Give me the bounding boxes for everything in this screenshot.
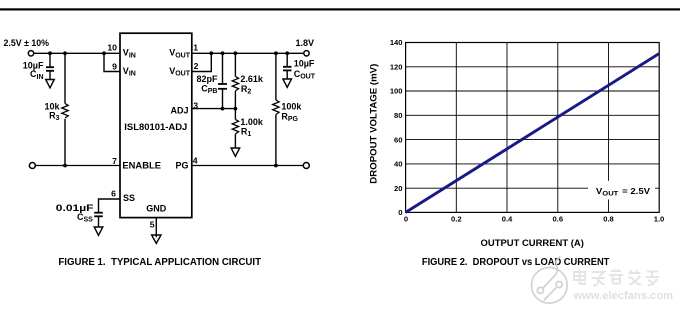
node junction R2 top	[234, 51, 238, 55]
watermark logo circle	[531, 256, 567, 303]
enable terminal	[29, 163, 35, 169]
watermark CJK text	[574, 270, 659, 287]
svg-text:CPB: CPB	[201, 83, 217, 95]
chart frame	[406, 43, 660, 213]
chart x labels	[404, 215, 664, 224]
wire input rail	[34, 52, 120, 54]
capacitor C_PB	[196, 53, 227, 108]
svg-text:6: 6	[111, 188, 116, 198]
node junction R3 bottom	[63, 164, 67, 168]
wire enable line left	[36, 165, 120, 167]
svg-text:FIGURE 1. TYPICAL APPLICATION: FIGURE 1. TYPICAL APPLICATION CIRCUIT	[58, 257, 261, 268]
wire ADJ	[192, 108, 236, 110]
svg-text:100k: 100k	[281, 102, 302, 112]
svg-text:0: 0	[404, 215, 408, 224]
svg-text:ADJ: ADJ	[170, 106, 188, 116]
svg-text:ENABLE: ENABLE	[122, 161, 161, 171]
svg-text:RPG: RPG	[281, 112, 298, 124]
svg-text:www.elecfans.com: www.elecfans.com	[573, 290, 674, 302]
svg-text:0.2: 0.2	[451, 215, 462, 224]
svg-text:COUT: COUT	[294, 69, 316, 81]
chart y labels	[390, 38, 403, 217]
svg-text:OUTPUT CURRENT (A): OUTPUT CURRENT (A)	[481, 238, 584, 248]
svg-text:5: 5	[150, 220, 155, 230]
node junction CPB top	[221, 51, 225, 55]
node junction pin2	[209, 51, 213, 55]
svg-text:CSS: CSS	[77, 212, 93, 224]
chart data line	[406, 54, 660, 213]
svg-text:10: 10	[107, 42, 117, 52]
svg-text:FIGURE 2. DROPOUT vs LOAD CUR: FIGURE 2. DROPOUT vs LOAD CURRENT	[422, 257, 610, 268]
svg-text:4: 4	[193, 155, 198, 165]
wire pin 9 stub	[104, 53, 120, 71]
wire output rail	[192, 52, 307, 54]
capacitor C_OUT	[283, 53, 316, 81]
svg-text:7: 7	[112, 156, 117, 166]
svg-text:80: 80	[394, 111, 402, 120]
svg-text:1.0: 1.0	[654, 215, 665, 224]
svg-text:0.4: 0.4	[502, 215, 513, 224]
output terminal 1.8V	[304, 51, 309, 56]
node junction CIN	[48, 51, 52, 55]
svg-text:9: 9	[112, 62, 117, 72]
node junction RPG top	[274, 51, 278, 55]
svg-text:20: 20	[394, 184, 402, 193]
svg-text:ISL80101-ADJ: ISL80101-ADJ	[124, 122, 187, 132]
svg-text:0.6: 0.6	[553, 215, 564, 224]
top rule	[0, 8, 680, 10]
ground (below CIN)	[46, 80, 55, 88]
svg-text:0.8: 0.8	[603, 215, 614, 224]
node junction CPB bottom	[221, 107, 225, 111]
svg-text:1.00k: 1.00k	[240, 117, 264, 127]
svg-text:CIN: CIN	[30, 69, 44, 81]
resistor R2	[232, 53, 264, 108]
svg-text:GND: GND	[146, 203, 167, 213]
resistor R3	[44, 53, 68, 165]
capacitor C_SS	[56, 203, 103, 229]
svg-text:40: 40	[394, 160, 402, 169]
node junction RPG bottom	[274, 164, 278, 168]
input terminal	[28, 51, 33, 56]
svg-text:140: 140	[390, 38, 403, 47]
svg-text:0.01µF: 0.01µF	[56, 203, 94, 213]
wire PG line right	[192, 165, 304, 167]
PG terminal	[303, 163, 309, 169]
wire SS stub	[99, 199, 121, 213]
svg-text:2.5V ± 10%: 2.5V ± 10%	[4, 38, 50, 49]
chart annotation white box	[588, 181, 655, 200]
svg-text:SS: SS	[123, 193, 135, 203]
svg-text:10µF: 10µF	[294, 58, 315, 68]
node junction pin9	[102, 51, 106, 55]
resistor R1	[232, 109, 264, 150]
wire GND pin5	[155, 218, 157, 237]
svg-text:R3: R3	[49, 110, 60, 122]
svg-text:100: 100	[390, 87, 403, 96]
svg-text:1.8V: 1.8V	[296, 38, 315, 48]
svg-text:PG: PG	[175, 161, 188, 171]
resistor RPG	[273, 53, 303, 165]
ground (pin5)	[152, 235, 161, 243]
ground (below CSS)	[94, 227, 103, 235]
svg-text:120: 120	[390, 63, 403, 72]
ground (below R1)	[231, 148, 240, 156]
svg-text:2: 2	[194, 61, 199, 71]
regulator U1 ISL80101-ADJ block	[120, 33, 192, 217]
capacitor C_IN	[23, 53, 54, 81]
chart figure 2 gridlines	[406, 43, 660, 213]
svg-text:DROPOUT VOLTAGE (mV): DROPOUT VOLTAGE (mV)	[369, 64, 379, 184]
node junction R3	[63, 51, 67, 55]
ground (below COUT)	[283, 79, 292, 87]
svg-text:0: 0	[398, 208, 402, 217]
svg-text:2.61k: 2.61k	[240, 74, 264, 84]
node junction COUT top	[285, 51, 289, 55]
svg-text:R1: R1	[241, 127, 252, 139]
svg-text:1: 1	[193, 42, 198, 52]
svg-text:60: 60	[394, 135, 402, 144]
svg-text:R2: R2	[241, 84, 252, 96]
node junction R1 top	[234, 107, 238, 111]
wire pin 2 stub out	[192, 53, 212, 71]
